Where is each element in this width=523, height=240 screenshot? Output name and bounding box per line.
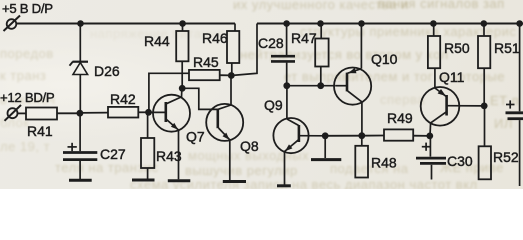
ground symbol under C27 xyxy=(69,179,92,182)
ground symbol under Q9 xyxy=(277,184,291,187)
svg-text:C27: C27 xyxy=(100,146,126,162)
wire Q9 collector riser xyxy=(286,86,288,119)
wire D26 top lead xyxy=(79,24,81,62)
wire R52 top lead xyxy=(484,106,486,146)
wire R49 to node H xyxy=(413,135,430,137)
wire R47 bottom lead xyxy=(320,67,322,86)
svg-text:R46: R46 xyxy=(202,30,228,46)
svg-text:R51: R51 xyxy=(494,40,520,56)
wire C30 bottom lead xyxy=(431,165,433,180)
node junction R47 bottom on Q10 base wire xyxy=(317,82,324,89)
svg-text:D26: D26 xyxy=(94,63,120,79)
ground symbol under Q7 xyxy=(168,179,191,182)
transistor Q11 pnp xyxy=(421,69,484,126)
svg-text:Q8: Q8 xyxy=(240,138,259,154)
power terminal +12V with label +12 ВD/P xyxy=(0,90,55,121)
node junction far-right capacitor top on rail xyxy=(516,20,523,27)
resistor R49 xyxy=(384,110,413,141)
wire R44 bottom lead to node D xyxy=(181,61,183,88)
wire mid row node F to node G xyxy=(325,135,362,137)
wire R46 bottom lead xyxy=(231,63,233,76)
node junction R44 top on rail xyxy=(179,20,186,27)
svg-text:R49: R49 xyxy=(387,110,413,126)
node H junction R49 Q11-collector C30 xyxy=(426,133,433,140)
svg-text:R44: R44 xyxy=(144,33,170,49)
wire terminal to R41 xyxy=(18,112,27,114)
wire R48 top lead xyxy=(361,136,363,146)
wire R41 to node A xyxy=(57,112,80,114)
svg-text:R50: R50 xyxy=(444,40,470,56)
svg-text:R41: R41 xyxy=(27,123,53,139)
node junction R51 top on rail xyxy=(481,20,488,27)
resistor R43 xyxy=(141,138,182,168)
ground symbol under Q8 xyxy=(223,180,246,183)
svg-text:C30: C30 xyxy=(447,153,473,169)
resistor R50 xyxy=(428,24,470,69)
svg-text:Q11: Q11 xyxy=(439,69,465,85)
power terminal +5V with label +5 В D/P xyxy=(2,1,53,31)
transistor Q10 pnp xyxy=(334,51,398,105)
wire D26 anode to node A xyxy=(79,75,81,114)
resistor R42 xyxy=(108,91,138,118)
wire node D to Q8 base xyxy=(182,88,218,109)
wire R45 right lead to node C xyxy=(220,74,232,76)
svg-text:+12 ВD/P: +12 ВD/P xyxy=(0,90,55,105)
resistor R41 xyxy=(26,108,57,140)
wire node B up and right to R45 left lead xyxy=(149,73,189,112)
node E junction C28 Q9-collector Q10-base xyxy=(283,82,290,89)
wire C27 bottom lead xyxy=(79,161,81,179)
node I junction R51 Q11-base R52 xyxy=(481,103,488,110)
svg-text:R45: R45 xyxy=(193,54,219,70)
wire Q8 collector to node C xyxy=(230,76,232,106)
resistor R45 xyxy=(189,54,220,80)
svg-text:R42: R42 xyxy=(110,91,136,107)
transistor Q7 xyxy=(149,95,205,145)
wire R51 bottom lead to node I xyxy=(483,68,485,106)
capacitor C31 far right polarized xyxy=(506,24,523,119)
node junction D26 top on rail xyxy=(77,20,84,27)
svg-text:Q9: Q9 xyxy=(264,97,283,113)
wire Q10 base from node E xyxy=(287,85,336,87)
wire +5V rail right section xyxy=(257,23,523,25)
svg-text:R52: R52 xyxy=(493,149,519,165)
wire Q10 collector down to node G xyxy=(361,102,363,136)
wire Q9 emitter down xyxy=(284,152,286,185)
wire node F ground stub xyxy=(324,136,326,158)
svg-text:Q10: Q10 xyxy=(371,51,398,67)
wire node C to right rail riser xyxy=(231,24,257,76)
wire Q10 emitter to rail xyxy=(360,24,362,69)
node junction Q10 emitter on rail xyxy=(358,20,365,27)
resistor R47 xyxy=(291,24,329,67)
svg-text:C28: C28 xyxy=(258,35,284,51)
wire C30 top lead xyxy=(429,136,431,157)
node C junction R45 R46 Q8-collector wire-to-rail2 xyxy=(228,72,235,79)
node junction R47 top on rail xyxy=(317,20,324,27)
wire C27 top lead from node A xyxy=(79,113,81,151)
capacitor C30 polarized xyxy=(416,143,473,169)
resistor R48 xyxy=(355,146,397,178)
transistor Q8 xyxy=(206,104,259,154)
transistor Q9 xyxy=(264,97,325,153)
node junction C28 top on rail xyxy=(283,20,290,27)
ground symbol under R43 xyxy=(132,179,155,182)
wire Q7 collector to node D xyxy=(181,88,183,97)
node D junction R44 Q7-collector Q8-base wire xyxy=(179,85,186,92)
wire node A to R42 xyxy=(80,112,108,114)
wire node G to R49 xyxy=(362,135,384,137)
resistor R46 xyxy=(202,24,239,64)
wire +5V rail left section xyxy=(17,23,235,25)
wire R43 top lead xyxy=(147,112,149,138)
wire Q7 emitter down xyxy=(178,130,180,179)
node G junction Q10-collector R48 mid-wire xyxy=(358,132,365,139)
node B junction R42 R43 R45 Q7-base xyxy=(145,109,152,116)
svg-text:R48: R48 xyxy=(371,155,397,171)
wire R50 bottom to Q11 emitter xyxy=(434,68,436,88)
resistor R44 xyxy=(144,24,189,62)
wire Q8 emitter down xyxy=(229,140,231,180)
node F junction Q9-base ground-stub mid-wire xyxy=(322,132,329,139)
ground symbol mid under node F xyxy=(311,158,341,161)
capacitor C27 polarized xyxy=(63,143,126,162)
svg-text:Q7: Q7 xyxy=(186,129,205,145)
wire Q11 collector to node H xyxy=(429,123,432,136)
svg-text:R47: R47 xyxy=(291,30,317,46)
node junction R50 top on rail xyxy=(430,20,437,27)
wire C28 bottom lead to node E xyxy=(286,63,288,86)
wire R43 bottom lead xyxy=(147,168,149,179)
resistor R51 xyxy=(478,24,520,69)
resistor R52 xyxy=(479,146,519,179)
svg-text:+5 В D/P: +5 В D/P xyxy=(2,1,53,16)
capacitor C28 xyxy=(258,24,295,62)
wire R42 to node B xyxy=(138,111,148,113)
zener diode D26 xyxy=(70,62,120,79)
wire far-right capacitor bottom lead xyxy=(519,120,521,186)
node A junction R41 R42 D26 C27 xyxy=(77,110,84,117)
